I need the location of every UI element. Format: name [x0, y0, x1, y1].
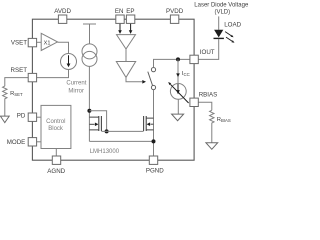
wire switch top to IOUT node [154, 59, 190, 67]
current mirror circle A [82, 44, 97, 59]
wire current mirror output down to Q1 drain rail [88, 66, 90, 141]
pin MODE [28, 138, 36, 146]
pin EN [116, 15, 124, 23]
current source I2 (controlled) [170, 84, 186, 100]
chip boundary U1 LMH13000 [32, 19, 194, 160]
wire source bus to PGND [89, 141, 153, 156]
transistor Q2 (output NMOS) [146, 118, 153, 130]
svg-text:PVDD: PVDD [166, 8, 184, 15]
node source bus junction [152, 139, 156, 143]
wire AVDD internal supply bar to current mirror [83, 24, 96, 44]
svg-text:EP: EP [126, 8, 134, 15]
svg-text:LOAD: LOAD [224, 21, 241, 28]
svg-text:(VLD): (VLD) [214, 10, 230, 16]
wire I1 bottom to RSET pin [37, 70, 69, 78]
svg-text:VSET: VSET [11, 40, 27, 47]
wire VSET pin to X1 input [37, 41, 42, 43]
svg-text:RSET: RSET [10, 67, 27, 74]
wire gate bus Q1 to Q2 [101, 130, 143, 132]
wire PD pin to control block [37, 116, 41, 118]
wire control block to AGND pin [55, 149, 57, 157]
logic gate buffer U2 (EN/EP input) [117, 35, 136, 49]
svg-text:RSET: RSET [10, 91, 23, 97]
svg-text:EN: EN [115, 8, 124, 15]
laser diode D1 LOAD [214, 30, 223, 38]
svg-text:Control: Control [46, 119, 65, 125]
ground (I2) [172, 114, 184, 121]
svg-text:RBIAS: RBIAS [217, 117, 231, 123]
pin PVDD [170, 15, 178, 23]
svg-text:PGND: PGND [146, 168, 164, 174]
resistor RBIAS external [210, 110, 214, 142]
pin VSET [28, 38, 36, 46]
logic gate driver U3 [116, 62, 135, 78]
wire I2 to ground [177, 99, 179, 114]
control block [41, 105, 71, 148]
svg-text:IOUT: IOUT [200, 49, 215, 56]
svg-text:ICC: ICC [182, 71, 190, 77]
pin EP [126, 15, 134, 23]
svg-text:Mirror: Mirror [68, 88, 84, 94]
wire EP pin stub [130, 24, 132, 31]
node IOUT internal junction [176, 57, 180, 61]
node gate bus junction [105, 129, 109, 133]
current mirror circle B [82, 51, 97, 66]
laser light emission arrows [225, 32, 231, 36]
buffer X1 [41, 33, 57, 50]
wire RBIAS pin to resistor [198, 102, 212, 110]
pin PGND [149, 156, 157, 164]
wire ICC branch to current source I2 [177, 59, 179, 84]
svg-text:LMH13000: LMH13000 [90, 149, 120, 155]
svg-text:PD: PD [17, 113, 26, 120]
wire X1 output to current source I1 [58, 42, 69, 53]
wire EN pin stub [119, 24, 121, 31]
wire laser diode cathode to IOUT pin [198, 39, 218, 60]
current source I1 [61, 54, 77, 70]
ground (RSET) [0, 116, 9, 123]
svg-text:AGND: AGND [47, 168, 65, 174]
pin RBIAS [190, 98, 198, 106]
ground (RBIAS) [206, 143, 218, 150]
resistor RSET external [5, 78, 28, 87]
svg-text:Laser Diode Voltage: Laser Diode Voltage [194, 2, 249, 8]
wire VLD supply to laser diode anode [218, 16, 220, 29]
pin RSET [28, 73, 36, 81]
svg-text:X1: X1 [44, 41, 51, 47]
wire U2 to U3 [125, 49, 127, 62]
pin AVDD [58, 15, 66, 23]
pin PD [28, 113, 36, 121]
svg-text:MODE: MODE [7, 139, 26, 146]
wire U3 output to switch S1 control [126, 77, 142, 81]
pin AGND [52, 156, 60, 164]
svg-text:Block: Block [48, 126, 64, 132]
wire Q1 gate tap (diode connection) [89, 111, 106, 132]
wire switch bottom to Q2 drain rail [153, 90, 155, 142]
transistor Q1 (mirror reference NMOS) [87, 109, 91, 113]
pin IOUT [190, 55, 198, 63]
svg-text:RBIAS: RBIAS [199, 92, 218, 99]
svg-text:Current: Current [66, 81, 86, 87]
wire MODE pin to control block [37, 141, 41, 143]
svg-text:AVDD: AVDD [54, 8, 71, 15]
switch S1 [151, 68, 155, 72]
